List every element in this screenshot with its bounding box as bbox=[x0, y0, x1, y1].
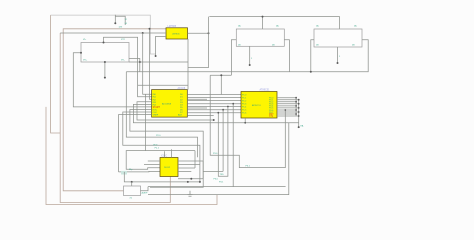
wire mid 85 bbox=[138, 84, 188, 86]
wire U1-U2 bus6 bbox=[187, 109, 241, 111]
wire U4 right pins bbox=[178, 161, 203, 172]
wire loop to crystal box bbox=[63, 29, 166, 191]
node long1 end bbox=[213, 119, 215, 121]
wire box B top drop bbox=[262, 17, 264, 29]
wire U1 right stub b bbox=[187, 107, 207, 109]
wire U2 bottom stub1 bbox=[244, 118, 246, 123]
wire U1 left pin8 bbox=[123, 112, 200, 182]
mcu U2 bbox=[241, 92, 277, 119]
svg-text:AT89C51: AT89C51 bbox=[252, 104, 261, 107]
wire U1 right pin9 bbox=[187, 115, 213, 117]
wire J1 bottom stub bbox=[104, 62, 106, 78]
node xtal top bbox=[131, 181, 133, 183]
wire J1 left bbox=[73, 53, 151, 107]
svg-text:ALE: ALE bbox=[178, 114, 183, 117]
node tap5 bbox=[232, 103, 234, 105]
wire J2 right pin bbox=[284, 40, 289, 72]
node J3 join bbox=[310, 71, 312, 73]
wire U1-U2 bus3 bbox=[187, 100, 241, 102]
node bus dots bbox=[295, 97, 297, 99]
wire J1 top pin up bbox=[104, 37, 152, 96]
wire U1 left pin5 bbox=[133, 104, 298, 122]
svg-text:VREF: VREF bbox=[153, 115, 159, 117]
wire out vertical bbox=[188, 17, 209, 68]
wire J3 left pin bbox=[311, 40, 314, 72]
wire bottom net3 bbox=[150, 179, 203, 188]
wire bottom net1 bbox=[178, 161, 203, 179]
wire U1 left pin7 bbox=[130, 110, 203, 179]
wire J1 bottom edge ext bbox=[129, 61, 140, 63]
wire pin1 down leg bbox=[145, 94, 147, 150]
connector J1 bbox=[81, 43, 129, 63]
wire xtal nest1 bbox=[126, 151, 195, 170]
capacitor label boxlet bbox=[121, 171, 127, 175]
node tap3 bbox=[227, 106, 229, 108]
node tap4 bbox=[222, 109, 224, 111]
connector J2 bbox=[236, 29, 284, 46]
node bn1 bbox=[187, 181, 189, 183]
wire U2 right bus bbox=[277, 98, 299, 116]
connector J3 bbox=[314, 29, 362, 47]
wire left outer loop bbox=[51, 15, 61, 133]
wire EA to U2 bbox=[220, 75, 222, 94]
wire xtal top pin bbox=[131, 182, 133, 186]
wire U1-U2 bus4 bbox=[187, 103, 241, 105]
wire mid band long bbox=[126, 40, 368, 72]
node J3 stub bbox=[337, 62, 339, 64]
wire top main left bbox=[51, 15, 156, 54]
node tap2 bbox=[217, 112, 219, 114]
wire loop to IC3 bottom bbox=[60, 33, 170, 203]
node junction top bbox=[262, 16, 264, 18]
svg-text:AT89C51: AT89C51 bbox=[260, 88, 271, 91]
node J1 stub bbox=[104, 77, 106, 79]
wire U1-U2 bus5 bbox=[187, 106, 241, 108]
wire loop a bbox=[126, 72, 197, 157]
node U3 out join bbox=[208, 32, 210, 34]
svg-text:VDD: VDD bbox=[153, 145, 158, 147]
crystal X1 bbox=[124, 186, 141, 196]
svg-text:ALE/P: ALE/P bbox=[142, 192, 149, 195]
node J1 left pin bbox=[80, 52, 82, 54]
node J2 stub bbox=[249, 64, 251, 66]
node net1 tap bbox=[284, 109, 286, 111]
wire U1-U2 bus1 bbox=[187, 94, 241, 96]
svg-text:12V: 12V bbox=[119, 26, 123, 28]
wire U1-U2 bus7 bbox=[187, 112, 241, 114]
node pin3 end bbox=[155, 55, 157, 57]
svg-text:LM7805: LM7805 bbox=[168, 25, 177, 28]
wire nest right edge bbox=[194, 151, 196, 168]
svg-text:VO-: VO- bbox=[121, 60, 125, 62]
wire J2 bottom stub bbox=[249, 46, 251, 65]
net stub hook bbox=[115, 15, 125, 25]
svg-text:ADC0808: ADC0808 bbox=[162, 103, 172, 106]
wire bottom 186 bbox=[148, 186, 286, 188]
node EA bbox=[220, 74, 222, 76]
wire pin3 drop bbox=[150, 29, 152, 100]
svg-text:ADC08: ADC08 bbox=[178, 87, 186, 90]
wire bottom outer loop bbox=[46, 107, 217, 205]
wire top main right bbox=[209, 17, 339, 29]
adc U1 bbox=[152, 90, 188, 118]
node pin3 drop bbox=[149, 28, 151, 30]
wire U1 left pin4 bbox=[137, 102, 214, 120]
wire U4 top pins bbox=[165, 149, 172, 157]
node U3 pin2 tap bbox=[142, 32, 144, 34]
node U2 stub1 bbox=[244, 122, 246, 124]
wire J1 right pin bbox=[129, 59, 140, 72]
wire mid right net3 bbox=[222, 110, 224, 172]
wire U1-U2 bus2 bbox=[187, 97, 241, 99]
wire U3 pin3 bbox=[156, 36, 166, 56]
wire mid right net2 bbox=[218, 107, 228, 177]
svg-text:LM7805: LM7805 bbox=[172, 34, 180, 36]
node bn3 bbox=[199, 181, 201, 183]
node J1 top pin bbox=[103, 42, 105, 44]
wire xtal nest2 bbox=[119, 170, 161, 173]
node J1 right bbox=[139, 61, 141, 63]
node bn2 bbox=[190, 178, 192, 180]
wire mid right net4 bbox=[232, 104, 234, 187]
wire U3 bottom bbox=[187, 39, 189, 90]
node J1 bottom bbox=[104, 61, 106, 63]
wire right bus vert2 bbox=[298, 100, 300, 127]
wire mid right net1 bbox=[210, 110, 285, 168]
wire U1 left pin9 bbox=[119, 115, 152, 172]
wire J3 bottom stub bbox=[337, 47, 339, 63]
wire U3 pin2 line bbox=[60, 32, 166, 34]
ground bbox=[189, 191, 191, 195]
wire U3 out bbox=[188, 32, 209, 34]
wire U1 right stub a bbox=[187, 98, 207, 100]
regulator U3 bbox=[166, 28, 188, 39]
wire bottom right long bbox=[148, 123, 289, 195]
wire U4 left pins bbox=[144, 161, 160, 165]
eeprom U4 bbox=[160, 158, 178, 177]
node hook dot bbox=[114, 22, 116, 24]
wire net 171 bbox=[203, 170, 223, 172]
svg-text:24C02: 24C02 bbox=[164, 167, 171, 169]
wire gnd cross bbox=[140, 61, 188, 63]
svg-text:XT1: XT1 bbox=[269, 116, 274, 118]
wire J2 left pin bbox=[231, 40, 236, 76]
wire X1 right bbox=[141, 187, 149, 191]
svg-text:TXD: TXD bbox=[220, 174, 225, 176]
wire bottom net2 bbox=[124, 172, 200, 182]
wire EA feed bbox=[210, 74, 231, 76]
svg-text:START: START bbox=[153, 106, 161, 109]
wire EA vert bbox=[209, 75, 211, 120]
node bus end bbox=[298, 126, 300, 128]
wire right bus vert bbox=[295, 98, 297, 116]
wire tap to U1 pin1 bbox=[143, 33, 152, 94]
